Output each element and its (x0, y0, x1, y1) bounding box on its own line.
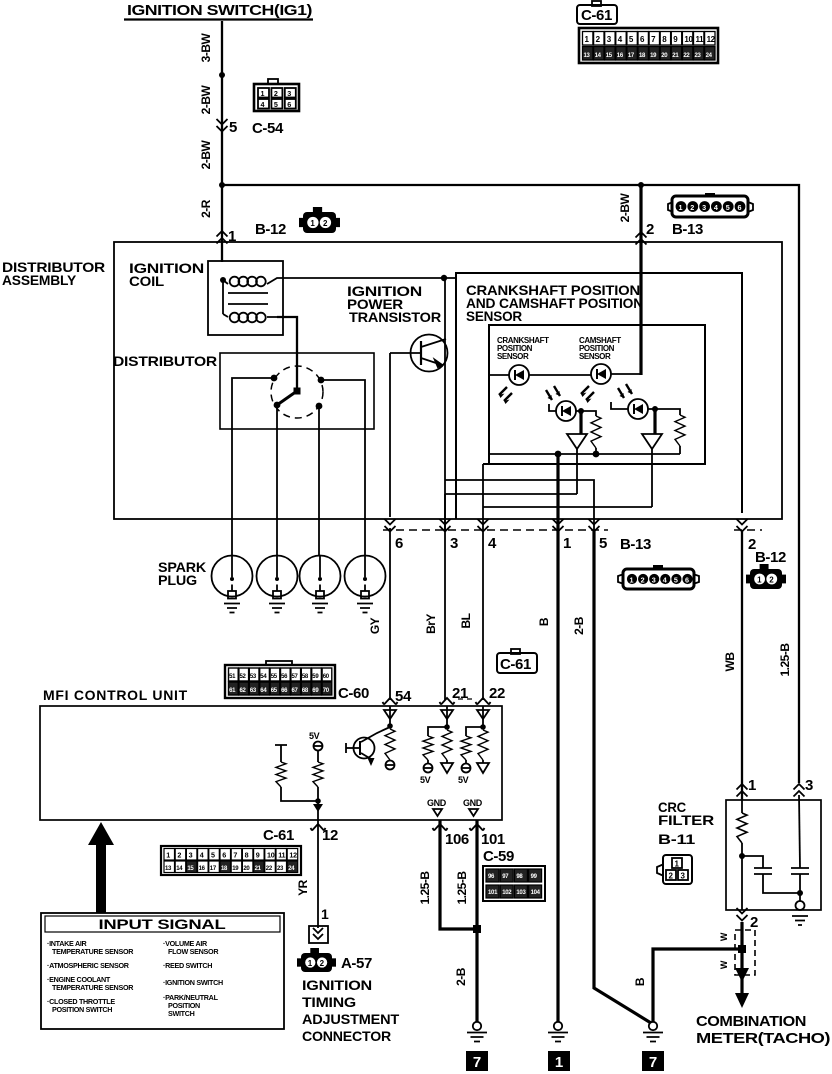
svg-text:68: 68 (302, 688, 309, 694)
svg-text:53: 53 (250, 674, 257, 680)
svg-text:10: 10 (267, 851, 275, 860)
svg-text:54: 54 (395, 688, 412, 705)
svg-text:5: 5 (211, 851, 215, 860)
svg-text:19: 19 (650, 53, 657, 59)
svg-text:17: 17 (628, 53, 635, 59)
arrow down pin12 (313, 804, 323, 812)
LED D1 crankshaft (499, 365, 529, 404)
svg-text:FILTER: FILTER (658, 812, 714, 828)
svg-text:5V: 5V (458, 775, 469, 785)
svg-text:3: 3 (702, 203, 706, 212)
wire coil primary output (297, 277, 456, 279)
svg-text:GND: GND (463, 798, 483, 808)
svg-text:7: 7 (233, 851, 237, 860)
wire rotor to spark plug 2 (276, 405, 278, 556)
svg-text:5V: 5V (420, 775, 431, 785)
svg-text:17: 17 (210, 866, 217, 872)
svg-text:·REED SWITCH: ·REED SWITCH (163, 961, 212, 970)
wire coil secondary to rotor (277, 317, 297, 388)
rotor center contact (294, 388, 301, 395)
connector crossing C-61 pin 22 (476, 698, 491, 705)
svg-text:·IGNITION SWITCH: ·IGNITION SWITCH (163, 978, 223, 987)
ground terminal 7 (466, 1051, 488, 1071)
svg-text:TEMPERATURE SENSOR: TEMPERATURE SENSOR (52, 983, 134, 992)
resistor R5 (313, 762, 323, 787)
svg-text:54: 54 (260, 674, 267, 680)
wire 1 B (556, 530, 559, 1022)
svg-text:2: 2 (690, 203, 694, 212)
node IGNITION SWITCH(IG1) (124, 2, 313, 20)
svg-text:IGNITION: IGNITION (302, 977, 372, 993)
svg-text:B-12: B-12 (755, 549, 786, 566)
svg-text:B-12: B-12 (255, 221, 286, 238)
connector crossing C-59 pin 101 (470, 824, 485, 831)
ground wire 2-B (467, 1022, 487, 1042)
svg-text:2-R: 2-R (199, 199, 213, 218)
svg-text:ASSEMBLY: ASSEMBLY (2, 272, 77, 288)
wire 6 GY (389, 353, 391, 700)
wire LED supply row (489, 374, 509, 376)
svg-text:2: 2 (274, 89, 278, 98)
wire 106 1.25-B (440, 820, 477, 929)
svg-text:101: 101 (488, 890, 498, 896)
rotor arm (277, 391, 297, 405)
wire ignition feed x=222 (221, 21, 223, 262)
svg-text:POSITION SWITCH: POSITION SWITCH (52, 1005, 112, 1014)
connector C-61 icon lower (24 pin) (161, 846, 301, 875)
wire 2 WB (741, 530, 743, 800)
svg-text:15: 15 (187, 866, 194, 872)
junction dot (387, 723, 393, 729)
svg-text:3: 3 (287, 89, 291, 98)
svg-text:63: 63 (250, 688, 257, 694)
svg-text:18: 18 (639, 53, 646, 59)
INPUT SIGNAL box (41, 913, 284, 1029)
connector crossing pin 2 out (737, 908, 748, 921)
amp U2 triangle (642, 434, 662, 449)
CRC filter box (726, 800, 821, 910)
svg-text:B-13: B-13 (620, 536, 651, 553)
connector crossing C-61 pin 21 (440, 698, 455, 705)
distributor assembly box (114, 242, 782, 519)
svg-text:5V: 5V (309, 731, 320, 741)
svg-text:62: 62 (240, 688, 247, 694)
svg-text:2-BW: 2-BW (199, 85, 213, 115)
svg-text:12: 12 (707, 35, 716, 44)
connector B-11 icon (657, 855, 692, 884)
resistor R6 filter (737, 813, 747, 843)
svg-text:1: 1 (321, 906, 329, 922)
svg-text:24: 24 (288, 866, 295, 872)
svg-text:BrY: BrY (424, 614, 438, 634)
sensor inner box (483, 325, 705, 464)
connector crossing B-13 pin 1 (553, 519, 564, 532)
svg-text:2-B: 2-B (572, 616, 586, 635)
MFI control unit box (40, 706, 502, 820)
rotor contact UL (271, 375, 278, 382)
connector C-61 label middle (497, 649, 537, 673)
spark plug 1 (212, 556, 253, 613)
svg-text:19: 19 (232, 866, 239, 872)
svg-text:SENSOR: SENSOR (579, 352, 611, 361)
svg-text:C-61: C-61 (263, 827, 294, 844)
svg-text:22: 22 (266, 866, 273, 872)
svg-text:B: B (633, 977, 647, 986)
svg-text:1: 1 (261, 89, 265, 98)
crank/cam sensor outer box (456, 273, 742, 519)
svg-text:C-54: C-54 (252, 120, 284, 137)
transistor Q2 internal (346, 727, 390, 766)
svg-text:6: 6 (685, 576, 689, 585)
svg-text:14: 14 (595, 53, 602, 59)
svg-text:GY: GY (368, 617, 382, 634)
svg-text:A-57: A-57 (341, 955, 372, 972)
connector crossing B-13 pin 4 (478, 519, 489, 532)
wire 3 lower segment (444, 494, 446, 530)
wire 3 BrY (444, 530, 446, 700)
junction dot (315, 798, 321, 804)
ground inside filter (796, 901, 805, 910)
wire pin1 into box (741, 795, 743, 813)
svg-text:57: 57 (292, 674, 299, 680)
svg-text:97: 97 (502, 874, 509, 880)
svg-text:96: 96 (488, 874, 495, 880)
svg-text:20: 20 (243, 866, 250, 872)
wire 4 BL (482, 530, 484, 700)
big arrow input signal to MFI (88, 822, 114, 913)
rotor contact UR (318, 377, 325, 384)
junction dot coil/transistor node (441, 275, 447, 281)
svg-text:104: 104 (531, 890, 541, 896)
svg-text:21: 21 (672, 53, 679, 59)
wire rotor to spark plug 3 (318, 406, 320, 556)
ground right (643, 1022, 663, 1042)
svg-text:2-BW: 2-BW (199, 140, 213, 170)
svg-text:5: 5 (599, 535, 607, 552)
svg-text:COMBINATION: COMBINATION (696, 1013, 806, 1030)
svg-text:5: 5 (674, 576, 678, 585)
svg-text:1.25-B: 1.25-B (778, 643, 792, 677)
svg-text:24: 24 (706, 53, 713, 59)
svg-text:4: 4 (714, 203, 718, 212)
svg-text:69: 69 (312, 688, 319, 694)
svg-text:C-61: C-61 (581, 7, 612, 24)
connector crossing B-11 pin 3 (794, 784, 805, 797)
svg-text:5: 5 (229, 119, 237, 136)
distributor rotor dashed circle (271, 366, 323, 418)
svg-text:1.25-B: 1.25-B (418, 871, 432, 905)
svg-text:COIL: COIL (129, 273, 165, 289)
svg-text:GND: GND (427, 798, 447, 808)
wire sensor ground bus (489, 453, 680, 455)
svg-text:1.25-B: 1.25-B (455, 871, 469, 905)
svg-text:SWITCH: SWITCH (168, 1009, 195, 1018)
svg-text:22: 22 (683, 53, 690, 59)
svg-text:14: 14 (176, 866, 183, 872)
coil secondary winding (223, 314, 277, 317)
wire pin21 internal (446, 706, 448, 727)
svg-text:98: 98 (516, 874, 523, 880)
svg-text:16: 16 (617, 53, 624, 59)
spark plug 2 (257, 556, 298, 613)
connector crossing B-12 pin 2 right (737, 519, 748, 532)
svg-text:WB: WB (723, 652, 737, 672)
wire B to ground right (653, 949, 742, 1022)
svg-text:101: 101 (481, 831, 505, 848)
wire 101 1.25-B (475, 820, 478, 1022)
capacitor C1 (742, 856, 763, 868)
svg-text:1: 1 (166, 851, 170, 860)
svg-text:BL: BL (459, 613, 473, 628)
svg-text:58: 58 (302, 674, 309, 680)
coil core (228, 292, 268, 294)
svg-text:7: 7 (649, 1054, 657, 1071)
LED D2 camshaft (581, 364, 611, 403)
svg-text:99: 99 (531, 874, 538, 880)
svg-text:4: 4 (261, 100, 265, 109)
svg-text:3: 3 (189, 851, 193, 860)
svg-text:4: 4 (663, 576, 667, 585)
svg-text:2: 2 (646, 221, 654, 238)
ground terminal 7 right (642, 1051, 664, 1071)
wire 12 YR (317, 820, 319, 928)
spark plug 3 (300, 556, 341, 613)
connector crossing B-13 pin 3 (440, 519, 451, 532)
svg-text:2: 2 (177, 851, 181, 860)
svg-text:SENSOR: SENSOR (466, 308, 522, 324)
connector crossing C-54 pin 5 (217, 119, 228, 132)
svg-text:65: 65 (271, 688, 278, 694)
wire 5 2-B (594, 530, 651, 1023)
terminal box A-57 (309, 926, 328, 943)
svg-text:66: 66 (281, 688, 288, 694)
connector crossing C-61 pin 12 (311, 824, 326, 831)
connector B-13 icon top (668, 193, 753, 217)
input triangle pin54 (384, 710, 396, 719)
connector crossing B-12 pin 1 (217, 231, 228, 244)
resistor series (478, 730, 488, 760)
resistor R3 pullup (385, 729, 395, 760)
connector crossing C-60 pin 54 (383, 698, 398, 705)
svg-text:5: 5 (274, 100, 278, 109)
svg-text:INPUT SIGNAL: INPUT SIGNAL (99, 916, 227, 932)
svg-text:2-BW: 2-BW (618, 193, 632, 223)
svg-text:12: 12 (322, 827, 338, 844)
svg-text:DISTRIBUTOR: DISTRIBUTOR (113, 353, 217, 369)
svg-text:67: 67 (292, 688, 299, 694)
connector B-13 icon lower (618, 565, 699, 589)
svg-text:18: 18 (221, 866, 228, 872)
svg-text:59: 59 (312, 674, 319, 680)
connector C-59 icon (483, 866, 545, 901)
input signal list (47, 939, 223, 1018)
resistor pullup (423, 736, 433, 760)
svg-text:B-13: B-13 (672, 221, 703, 238)
svg-text:22: 22 (489, 685, 505, 702)
svg-text:PLUG: PLUG (158, 572, 197, 588)
resistor R4 (275, 745, 287, 762)
svg-text:8: 8 (245, 851, 249, 860)
svg-text:TEMPERATURE SENSOR: TEMPERATURE SENSOR (52, 947, 134, 956)
svg-text:2-B: 2-B (454, 967, 468, 986)
junction dot (739, 853, 745, 859)
svg-text:4: 4 (488, 535, 497, 552)
wire 4 from inner box corner (482, 464, 484, 530)
junction dot tacho (738, 945, 746, 953)
wire 2-BW branch to sensor supply (639, 185, 642, 375)
connector C-60 icon (225, 661, 335, 698)
svg-text:W: W (719, 932, 729, 941)
svg-text:ADJUSTMENT: ADJUSTMENT (302, 1011, 400, 1027)
wire 3 coil node down through transistor (444, 278, 446, 530)
svg-text:64: 64 (260, 688, 267, 694)
connector B-12 icon right (746, 564, 786, 589)
junction dot (219, 182, 225, 188)
connector C-61 label top (577, 1, 617, 24)
svg-text:23: 23 (695, 53, 702, 59)
wire amp2 output (483, 449, 652, 507)
svg-text:B-11: B-11 (658, 831, 696, 847)
svg-text:51: 51 (229, 674, 236, 680)
junction dot bus/R1 (593, 451, 600, 458)
svg-text:3: 3 (450, 535, 458, 552)
capacitor C2 (791, 868, 809, 874)
svg-text:SENSOR: SENSOR (497, 352, 529, 361)
svg-text:TRANSISTOR: TRANSISTOR (349, 309, 441, 325)
svg-text:52: 52 (240, 674, 247, 680)
svg-text:C-60: C-60 (338, 685, 369, 702)
connector crossing B-13 pin 6 (385, 519, 396, 532)
svg-text:60: 60 (323, 674, 330, 680)
wire D4 output to amp (648, 408, 655, 410)
svg-text:6: 6 (222, 851, 226, 860)
connector C-61 icon top (24 pin) (579, 28, 718, 63)
svg-text:3-BW: 3-BW (199, 33, 213, 63)
svg-text:6: 6 (395, 535, 403, 552)
svg-text:12: 12 (289, 851, 297, 860)
connector crossing B-13 pin 2 (636, 232, 647, 245)
svg-text:1: 1 (679, 203, 683, 212)
amp U1 triangle (567, 434, 587, 449)
svg-text:CONNECTOR: CONNECTOR (302, 1028, 391, 1044)
ground terminal 1 (548, 1051, 570, 1071)
svg-text:3: 3 (805, 777, 813, 794)
svg-text:IGNITION SWITCH(IG1): IGNITION SWITCH(IG1) (127, 2, 312, 19)
svg-text:C-59: C-59 (483, 848, 514, 865)
resistor R2 sensor (655, 409, 680, 415)
junction dot (219, 72, 225, 78)
photodiode D4 camshaft pickup (611, 384, 648, 419)
svg-text:61: 61 (229, 688, 236, 694)
connector A-57 icon (297, 948, 336, 972)
svg-text:103: 103 (516, 890, 526, 896)
svg-text:23: 23 (277, 866, 284, 872)
dashed connector line B-13 (383, 529, 608, 531)
transistor Q1 ignition power (390, 335, 448, 372)
5V source circle (386, 761, 395, 770)
svg-text:C-61: C-61 (500, 656, 531, 673)
resistor series (442, 730, 452, 760)
wire coil left leg (222, 280, 224, 314)
svg-text:15: 15 (606, 53, 613, 59)
connector crossing B-13 pin 5 (589, 519, 600, 532)
wire top bus to right edge then down to CRC pin 3 (222, 185, 799, 783)
ignition coil T1 box (208, 261, 283, 335)
junction dot (797, 890, 803, 896)
wire rotor to spark plug 4 (321, 380, 365, 556)
connector crossing B-11 pin 1 (737, 784, 748, 797)
svg-text:YR: YR (296, 879, 310, 896)
resistor R1 sensor (581, 411, 596, 416)
distributor box (220, 353, 374, 429)
svg-text:FLOW SENSOR: FLOW SENSOR (168, 947, 219, 956)
svg-text:6: 6 (287, 100, 291, 109)
resistor pullup (461, 736, 471, 760)
svg-text:·ATMOSPHERIC SENSOR: ·ATMOSPHERIC SENSOR (47, 961, 130, 970)
photodiode D3 crankshaft pickup (546, 386, 576, 421)
svg-text:11: 11 (696, 35, 705, 44)
wire pin22 internal (482, 706, 484, 727)
wire 1 sensor output B (556, 454, 559, 530)
spark plug 4 (345, 556, 386, 613)
svg-text:B: B (537, 617, 551, 626)
svg-text:5: 5 (726, 203, 730, 212)
wire rotor to spark plug 1 (232, 378, 274, 556)
junction square 106/101 (473, 925, 481, 933)
wire D3 output to amp (576, 410, 581, 412)
svg-text:1: 1 (630, 576, 634, 585)
svg-text:10: 10 (684, 35, 693, 44)
svg-text:4: 4 (200, 851, 204, 860)
wire pin3 into box (799, 795, 800, 868)
rotor contact LR (316, 403, 323, 410)
connector crossing C-59 pin 106 (433, 824, 448, 831)
svg-text:7: 7 (473, 1054, 481, 1071)
rotor contact LL (274, 402, 281, 409)
svg-text:21: 21 (255, 866, 262, 872)
wire pin54 internal (389, 706, 391, 726)
svg-text:1: 1 (555, 1054, 563, 1071)
svg-text:13: 13 (584, 53, 591, 59)
svg-text:106: 106 (445, 831, 469, 848)
svg-text:11: 11 (278, 851, 285, 860)
coil primary winding (220, 277, 226, 283)
connector B-12 icon top (299, 207, 340, 233)
svg-text:6: 6 (738, 203, 742, 212)
svg-text:MFI CONTROL UNIT: MFI CONTROL UNIT (43, 687, 188, 703)
svg-text:9: 9 (256, 851, 260, 860)
svg-text:1: 1 (563, 535, 571, 552)
wire amp1 output (445, 449, 577, 494)
svg-text:56: 56 (281, 674, 288, 680)
wire H2 coil node to wire 5 (445, 480, 594, 530)
svg-text:102: 102 (502, 890, 512, 896)
svg-text:2: 2 (641, 576, 645, 585)
svg-text:1: 1 (748, 777, 756, 794)
ground wire 1 B (548, 1022, 568, 1042)
svg-text:13: 13 (165, 866, 172, 872)
svg-text:20: 20 (661, 53, 668, 59)
junction dot bus/wire1 (555, 451, 562, 458)
svg-text:70: 70 (323, 688, 330, 694)
svg-text:TIMING: TIMING (302, 994, 356, 1010)
svg-text:3: 3 (652, 576, 656, 585)
svg-text:METER(TACHO): METER(TACHO) (696, 1030, 830, 1047)
svg-text:2: 2 (750, 914, 758, 931)
svg-text:16: 16 (199, 866, 206, 872)
dashed connector box to meter (735, 930, 755, 975)
wire to combination meter (740, 922, 743, 995)
